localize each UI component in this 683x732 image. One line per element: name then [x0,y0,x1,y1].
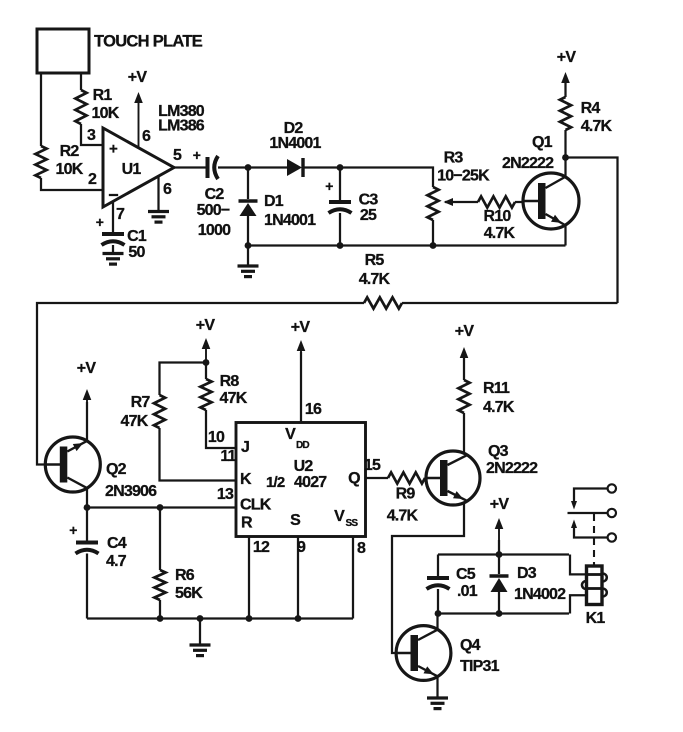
ground (Q4) [427,698,448,709]
wire [425,477,426,479]
wire [247,246,249,266]
svg-text:1/2: 1/2 [266,474,285,491]
wire [340,168,433,188]
svg-text:+: + [96,214,104,230]
relay contact (NC) [571,484,616,509]
svg-text:47K: 47K [220,390,248,407]
+V supply (relay) [490,496,510,542]
wire [81,124,103,145]
svg-text:TIP31: TIP31 [460,658,500,675]
relay actuator (dashed) [593,514,595,565]
svg-text:1N4001: 1N4001 [264,212,316,229]
junction [157,504,164,511]
transistor Q4 [395,626,499,681]
junction [435,610,442,617]
R3 wiper [444,198,479,206]
svg-text:15: 15 [364,457,381,474]
wire [303,166,340,168]
pin 10 (U2 J) [208,429,225,446]
svg-text:+V: +V [128,69,148,86]
capacitor C1 [96,214,147,261]
resistor R10 [478,196,516,242]
junction [337,164,344,171]
svg-text:2: 2 [88,171,97,188]
svg-text:4.7K: 4.7K [359,271,391,288]
svg-text:J: J [241,439,249,456]
junction [337,242,344,249]
svg-text:1N4001: 1N4001 [269,135,321,152]
svg-text:25: 25 [360,207,377,224]
svg-text:8: 8 [357,540,366,557]
capacitor C4 [69,508,126,571]
svg-text:R2: R2 [60,143,80,160]
svg-text:Q4: Q4 [460,637,481,654]
svg-text:4.7K: 4.7K [387,508,419,525]
svg-text:Q2: Q2 [106,461,127,478]
svg-text:Q: Q [348,470,360,487]
ground (U1 pin 6) [148,212,169,223]
svg-text:+V: +V [77,360,97,377]
wire [432,220,434,246]
wire [515,201,523,203]
svg-text:C1: C1 [127,228,147,245]
svg-text:V: V [334,508,345,525]
resistor R8 [200,363,247,411]
junction [562,154,569,161]
svg-text:47K: 47K [121,413,149,430]
wire [570,595,587,613]
svg-text:+V: +V [291,319,311,336]
pin 6 (U1 top) [142,128,151,145]
svg-text:CLK: CLK [240,497,272,514]
junction [295,615,302,622]
junction [496,610,503,617]
wire [339,213,341,246]
+V supply (R11) [455,323,475,380]
resistor R1 [75,87,119,124]
svg-text:+: + [325,178,333,194]
svg-text:6: 6 [163,181,172,198]
pin 11 (U2 K) [220,448,236,465]
+V supply (U2 pin 16) [291,319,311,352]
capacitor C3 [325,178,378,224]
svg-text:TOUCH PLATE: TOUCH PLATE [94,33,203,51]
pin 3 (U1) [87,127,96,144]
ground (C1) [103,254,124,265]
resistor R6 [154,508,203,619]
wire [199,619,201,645]
wire [339,168,341,201]
wire [564,225,566,246]
svg-text:4.7K: 4.7K [483,399,515,416]
svg-text:10−25K: 10−25K [437,168,490,185]
svg-text:10K: 10K [92,105,120,122]
wire [87,617,353,619]
svg-text:+: + [109,141,118,158]
diode D1 [239,193,317,229]
svg-text:U1: U1 [122,161,142,178]
pin 15 (U2 Q) [364,457,388,478]
wire [498,540,500,555]
junction [430,242,437,249]
wire [87,506,236,508]
svg-text:Q1: Q1 [532,134,553,151]
relay K1 coil [582,566,607,627]
capacitor C5 [427,555,478,614]
svg-text:9: 9 [297,539,306,556]
wire [160,428,237,481]
svg-text:+: + [69,522,77,538]
relay contact (common) [568,509,617,517]
capacitor C2 [197,156,232,239]
svg-text:12: 12 [253,539,270,556]
pin 9 (U2 S) [297,537,306,619]
wire [173,147,207,168]
svg-text:R5: R5 [365,252,385,269]
junction [157,615,164,622]
svg-text:+: + [193,147,201,163]
resistor R7 [121,363,206,431]
pin 6 (U1 bottom) [159,176,172,210]
svg-text:R1: R1 [93,87,113,104]
svg-text:C5: C5 [456,566,476,583]
svg-text:11: 11 [220,448,236,465]
svg-text:DD: DD [296,440,309,451]
ground (D1) [238,266,259,277]
svg-text:S: S [290,512,301,529]
pin 2 (U1) [88,171,97,188]
svg-text:U2: U2 [294,458,314,475]
junction [496,551,503,558]
wire [80,73,82,90]
wire [248,244,566,246]
wire [566,158,618,304]
wire [436,677,438,698]
svg-text:2N2222: 2N2222 [486,460,538,477]
pin 16 (U2 VDD) [301,352,322,423]
wire [37,303,364,465]
diode D3 [490,555,567,614]
svg-text:56K: 56K [175,585,203,602]
wire [41,178,103,190]
junction [246,615,253,622]
svg-text:7: 7 [116,206,125,223]
svg-text:+V: +V [455,323,475,340]
svg-text:C3: C3 [359,192,379,209]
svg-text:R10: R10 [484,208,512,225]
svg-text:K1: K1 [586,610,606,627]
junction [84,504,91,511]
wire [402,302,618,304]
svg-text:6: 6 [142,128,151,145]
svg-text:50: 50 [128,244,145,261]
svg-text:1N4002: 1N4002 [514,586,566,603]
+V supply (R7/R8) [196,317,216,363]
wire [86,402,88,442]
wire [570,555,587,575]
svg-text:V: V [285,426,296,443]
potentiometer R3 [427,150,490,221]
wire [438,553,569,555]
svg-text:C4: C4 [107,535,127,552]
touch plate [37,29,203,73]
svg-text:2N3906: 2N3906 [105,483,157,500]
svg-text:4.7K: 4.7K [581,118,613,135]
svg-text:13: 13 [217,486,234,503]
svg-text:1000: 1000 [198,222,231,239]
transistor Q2 [44,437,157,500]
svg-text:500−: 500− [197,202,230,219]
wire [436,614,438,631]
ground (rail) [190,645,211,656]
svg-text:3: 3 [87,127,96,144]
svg-text:+V: +V [557,49,577,66]
transistor Q3 [425,443,538,505]
wire [40,73,42,146]
+V supply (Q1) [557,49,577,97]
resistor R2 [35,143,83,178]
svg-text:R8: R8 [220,373,240,390]
svg-text:R7: R7 [131,394,151,411]
pin 8 (U2 VSS) [353,537,366,619]
svg-text:K: K [240,471,252,488]
wire [247,216,249,246]
svg-text:C2: C2 [205,186,225,203]
svg-text:+V: +V [196,317,216,334]
svg-text:10: 10 [208,429,225,446]
junction [203,359,210,366]
wire [392,503,464,653]
+V supply (U1 pin 6) [128,69,148,148]
op-amp U1 [103,128,174,207]
wire [112,245,114,253]
svg-text:R: R [241,515,253,532]
svg-text:R4: R4 [581,100,601,117]
wire [564,158,566,179]
svg-text:10K: 10K [56,161,84,178]
svg-text:D3: D3 [517,565,537,582]
wire [438,612,569,614]
wire [86,488,88,508]
pin 13 (U2 CLK) [217,486,234,503]
pin 12 (U2 R) [249,537,270,619]
junction [245,242,252,249]
pin 7 (U1) [113,201,125,232]
IC U2 (4027) [236,423,366,537]
resistor R9 [387,472,425,524]
svg-text:R3: R3 [444,150,464,167]
wire [247,168,249,200]
resistor R5 [359,252,402,309]
junction [245,164,252,171]
svg-text:4.7: 4.7 [106,553,127,570]
label LM380/LM386 [158,103,205,135]
svg-text:5: 5 [173,147,182,164]
svg-text:.01: .01 [457,583,478,600]
svg-text:LM386: LM386 [158,118,205,135]
transistor Q1 [502,134,579,229]
diode D2 [269,120,321,177]
svg-text:4.7K: 4.7K [484,225,516,242]
svg-text:2N2222: 2N2222 [502,155,554,172]
svg-text:Q3: Q3 [488,443,509,460]
resistor R11 [458,352,514,453]
svg-text:R6: R6 [175,567,195,584]
svg-text:D1: D1 [264,193,284,210]
wire [218,166,248,168]
wire [206,410,236,448]
svg-text:R11: R11 [483,380,510,397]
resistor R4 [560,80,613,158]
wire [248,166,287,168]
+V supply (Q2) [77,360,97,404]
junction [197,615,204,622]
svg-text:R9: R9 [396,486,416,503]
svg-text:+V: +V [490,496,510,513]
relay contact (NO) [571,520,616,542]
wire [86,554,88,619]
svg-text:4027: 4027 [294,474,327,491]
svg-text:SS: SS [346,518,359,529]
svg-text:16: 16 [305,401,322,418]
